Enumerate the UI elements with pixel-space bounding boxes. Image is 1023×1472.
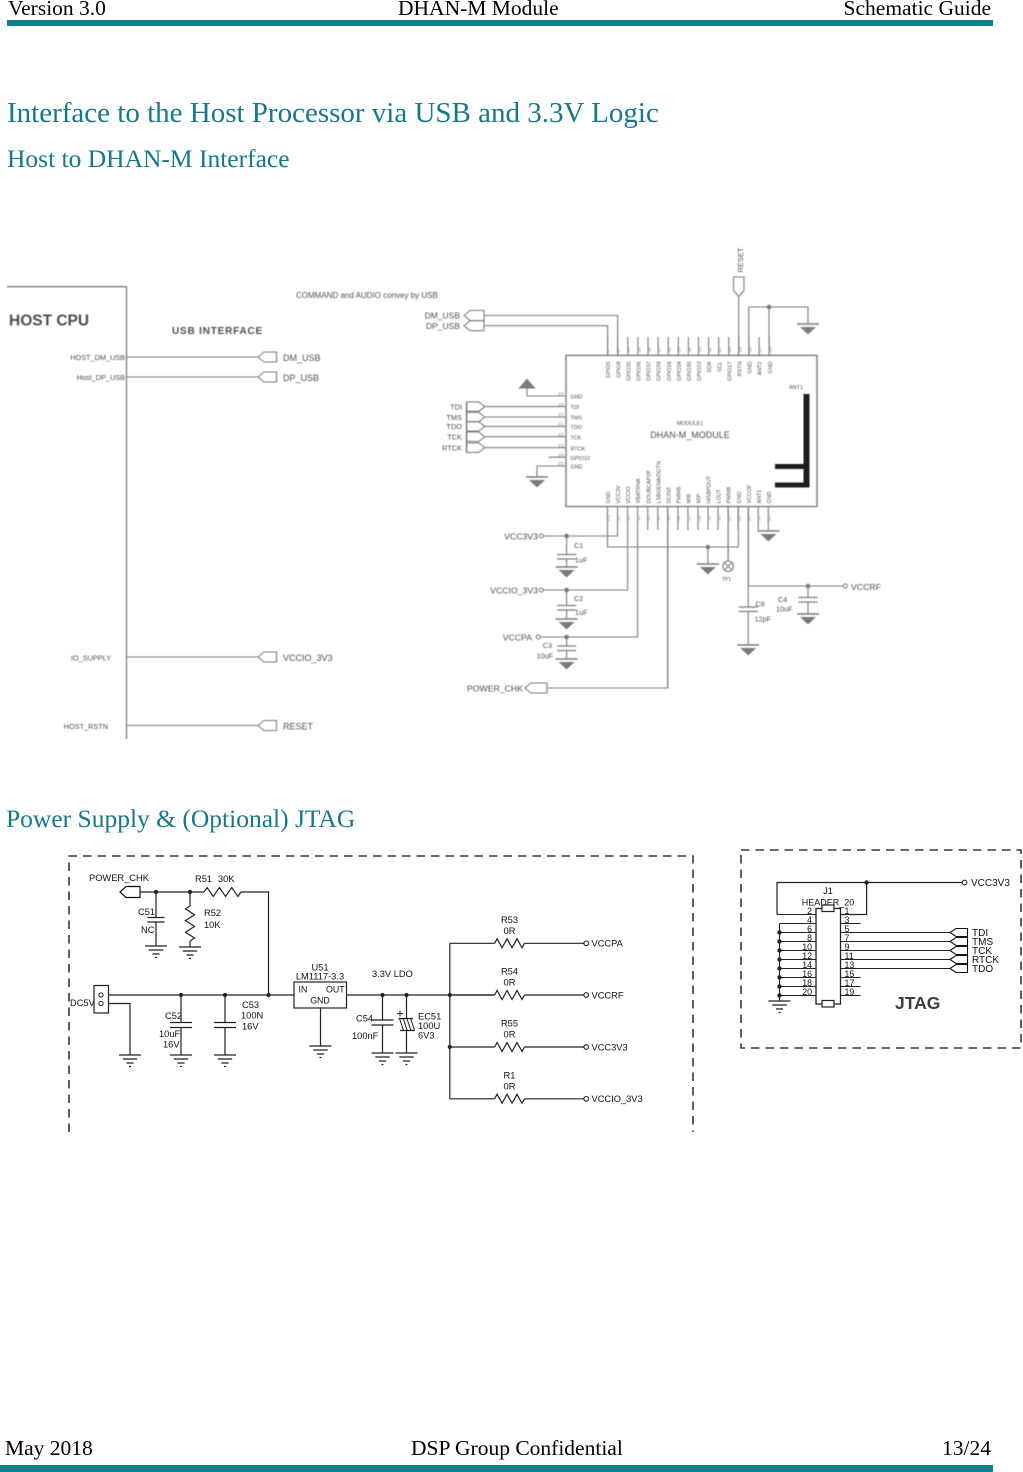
J1 pin 6 [777,924,816,935]
ground C52 [170,1055,192,1067]
wire RESET [738,297,740,356]
J1 pin 10 [777,942,816,953]
module top pin GPIO36 [636,337,642,381]
J1 pin 9 [841,942,951,952]
module bottom pin DOUBCAP2P [646,470,652,530]
wire Host_DP_USB [77,373,258,382]
port TCK [447,432,485,442]
wire DC5V pin2 to ground [109,1004,131,1056]
capacitor C2 [557,590,588,619]
module bottom pin PWMB [727,486,733,561]
terminal VCC3V3 [962,878,1010,889]
port POWER_CHK [89,873,150,898]
J1 pin 5 [841,924,951,934]
power supply dashed border [69,856,693,1132]
J1 pin 8 [777,933,816,944]
J1 pin 15 [841,969,861,979]
module bottom pin VCC3V [616,485,622,536]
svg-text:J1: J1 [823,886,833,896]
wire VCC3V3 rail [543,534,617,539]
J1 pin 17 [841,978,861,988]
module bottom pin HISBPOUT [706,475,712,530]
module bottom pin LOUT [716,488,722,530]
port TDO [446,422,484,432]
connector DC5V [70,986,109,1014]
module top pin ANT2 [758,337,764,375]
module top pin SDA [707,337,713,373]
module bottom pin PWMB [676,486,682,530]
terminal VCCIO_3V3 [584,1094,643,1104]
resistor R53 0R [450,915,584,948]
module top pin SCL [717,337,723,372]
module left pin GND [558,461,582,470]
svg-text:20: 20 [802,987,812,997]
module bottom pin MIB [686,494,692,530]
jtag dashed border [741,850,1021,1048]
svg-text:19: 19 [845,987,855,997]
port TMS [446,412,484,422]
module left pin TDI [558,402,579,411]
module left pin RTCK [558,443,585,452]
ground C54 [372,1053,394,1065]
module U-MODULE1 box [566,355,817,506]
module bottom pin VBATRNA [636,478,642,637]
wire TDI [485,406,566,408]
svg-text:JTAG: JTAG [895,993,940,1013]
port TDI [450,402,485,412]
antenna ANT1 [775,385,810,488]
capacitor C4 [776,586,818,614]
footer: May 2018 [5,1442,93,1455]
ground DC5V [119,1055,141,1067]
wire TCK [485,436,566,438]
host cpu block [7,287,127,739]
footer: 13/24 [942,1442,991,1455]
ground C2 [556,618,578,620]
wire jtag flag bus [465,402,467,452]
port RESET vertical [734,247,746,296]
wire R51 to rail [241,892,269,995]
module top pin GPIO16 [667,337,673,381]
header teal bar [7,20,993,26]
module bottom pin DCIN3 [666,487,672,688]
module bottom pin GND [606,491,612,547]
ground C6 [737,644,759,646]
module left pin GND [558,391,582,400]
J1 pin 1 [845,906,850,916]
module top pin GPIO34 [677,337,683,381]
port VCCIO_3V3 [258,652,333,663]
capacitor C53 [214,995,263,1055]
wire VCCPA rail [540,635,637,640]
ground U51 [310,1046,332,1058]
svg-text:VCC3V3: VCC3V3 [971,878,1010,889]
J1 pin 19 [841,987,861,997]
port TCK [950,946,992,957]
module left pin TMS [558,412,582,421]
port RTCK [442,443,485,453]
terminal VCCIO_3V3 [490,586,543,596]
port RESET [258,721,314,732]
wire TMS [485,416,566,418]
connector J1 HEADER_20 [802,886,855,1007]
header: Version 3.0 [8,2,106,15]
heading 2 [7,146,290,171]
capacitor C3 [537,637,576,661]
wire DP_USB [484,326,608,356]
wire HOST_RSTN [64,722,258,731]
module top pin GPIO17 [727,337,733,381]
wire output bus [448,943,452,1099]
ground J1 [769,1001,791,1013]
wire gnd gather [779,924,781,1002]
wire VCCRF rail [748,507,843,589]
port DP_USB [258,372,319,383]
J1 pin 11 [841,951,951,961]
J1 pin 14 [777,960,816,971]
port TMS [950,937,993,948]
resistor R51 [195,874,241,897]
regulator U51 LM1117-3.3 [294,963,347,1009]
heading 1 [7,99,659,128]
resistor R1 0R [450,1071,584,1104]
wire POWER_CHK [547,507,668,689]
J1 pin 12 [777,951,816,962]
port TDO [950,964,993,975]
ground left [526,476,548,478]
J1 pin 7 [841,933,951,943]
module top pin GPIO8 [616,337,622,378]
wire main 5V rail [109,993,295,997]
module left pin GPIO10 stub [549,456,566,458]
test point TP1 [722,507,733,584]
header: Schematic Guide [844,2,991,15]
terminal VCCRF [843,582,881,592]
power symbol VCC left [519,379,567,397]
module left pin TCK [558,432,582,441]
capacitor C54 [352,995,394,1053]
ground module right [757,530,779,532]
module top pin RSTN [737,337,743,376]
wire GND drop [707,547,709,564]
wire GND loop [749,305,808,356]
capacitor C1 [557,536,588,567]
capacitor C51 [138,892,165,946]
module bottom pin LSBGENA/DGTN [656,461,662,530]
capacitor C52 [159,995,192,1055]
module top pin GPIO33 [697,337,703,381]
J1 pin 18 [777,978,816,989]
wire VCCIO_3V3 rail [543,588,627,593]
wire HOST_DM_USB [70,353,258,362]
module top pin GND [747,337,753,373]
ground C51 [145,946,167,958]
module left pin TDO [558,422,582,431]
header: DHAN-M Module [398,2,559,15]
wire GND rail y547 [608,507,739,550]
ground R52 [179,947,201,959]
ground C4 [797,613,819,615]
module bottom pin GND [737,491,743,530]
capacitor C6 [739,586,772,645]
ground EC51 [396,1053,418,1065]
wire TDO [485,425,566,427]
terminal VCC3V3 [584,1042,628,1052]
capacitor EC51 electrolytic [397,995,441,1053]
ground C53 [214,1055,236,1067]
terminal VCC3V3 [504,532,543,542]
port RTCK [950,955,999,966]
resistor R52 [186,892,222,947]
module top pin GND [768,337,774,373]
footer: DSP Group Confidential [411,1442,623,1455]
terminal VCCPA [584,939,624,949]
J1 pin 4 [780,915,817,925]
svg-text:TDO: TDO [972,964,993,975]
wire VCC3V3 top [777,880,962,914]
ground below module [697,563,719,565]
wire GND left bottom [537,466,566,477]
terminal VCCRF [584,990,624,1000]
module top pin GPIO30 [687,337,693,381]
port POWER_CHK [467,683,547,694]
wire RTCK [485,447,566,449]
ground top-right [797,323,819,325]
module bottom pin GND [767,491,773,531]
ground C1 [556,566,578,568]
wire U51 gnd [320,1008,322,1046]
module bottom pin MIP [696,494,702,530]
port DM_USB [258,352,321,363]
wire 3.3V rail [347,993,495,997]
wire IO_SUPPLY [71,654,258,663]
wire DM_USB [484,316,618,356]
footer teal bar [0,1465,993,1472]
module bottom pin VCCIO [626,486,632,590]
ground C3 [556,658,578,660]
module top pin GPIO39 [657,337,663,381]
J1 pin 2 [777,906,816,916]
module bottom pin ANT1 [757,490,763,530]
module bottom pin VCCOF [747,484,753,586]
wire POWER_CHK node [140,890,204,894]
module top pin GPIO35 [626,337,632,381]
module top pin GPIO37 [646,337,652,381]
resistor R55 0R [450,1019,584,1052]
J1 pin 3 [841,915,861,925]
port DP_USB to module [426,321,484,331]
resistor R54 0R [450,967,584,1000]
J1 pin 16 [777,969,816,980]
module left pin GPIO10 [558,452,590,461]
module top pin GPIO5 [606,337,612,378]
terminal VCCPA [503,633,541,643]
port TDI [950,928,988,939]
wire pin1 to VCC3V3 [841,883,867,915]
J1 pin 13 [841,960,951,970]
J1 pin 20 [777,987,816,998]
heading 3 [6,806,355,831]
port DM_USB to module [425,311,484,321]
